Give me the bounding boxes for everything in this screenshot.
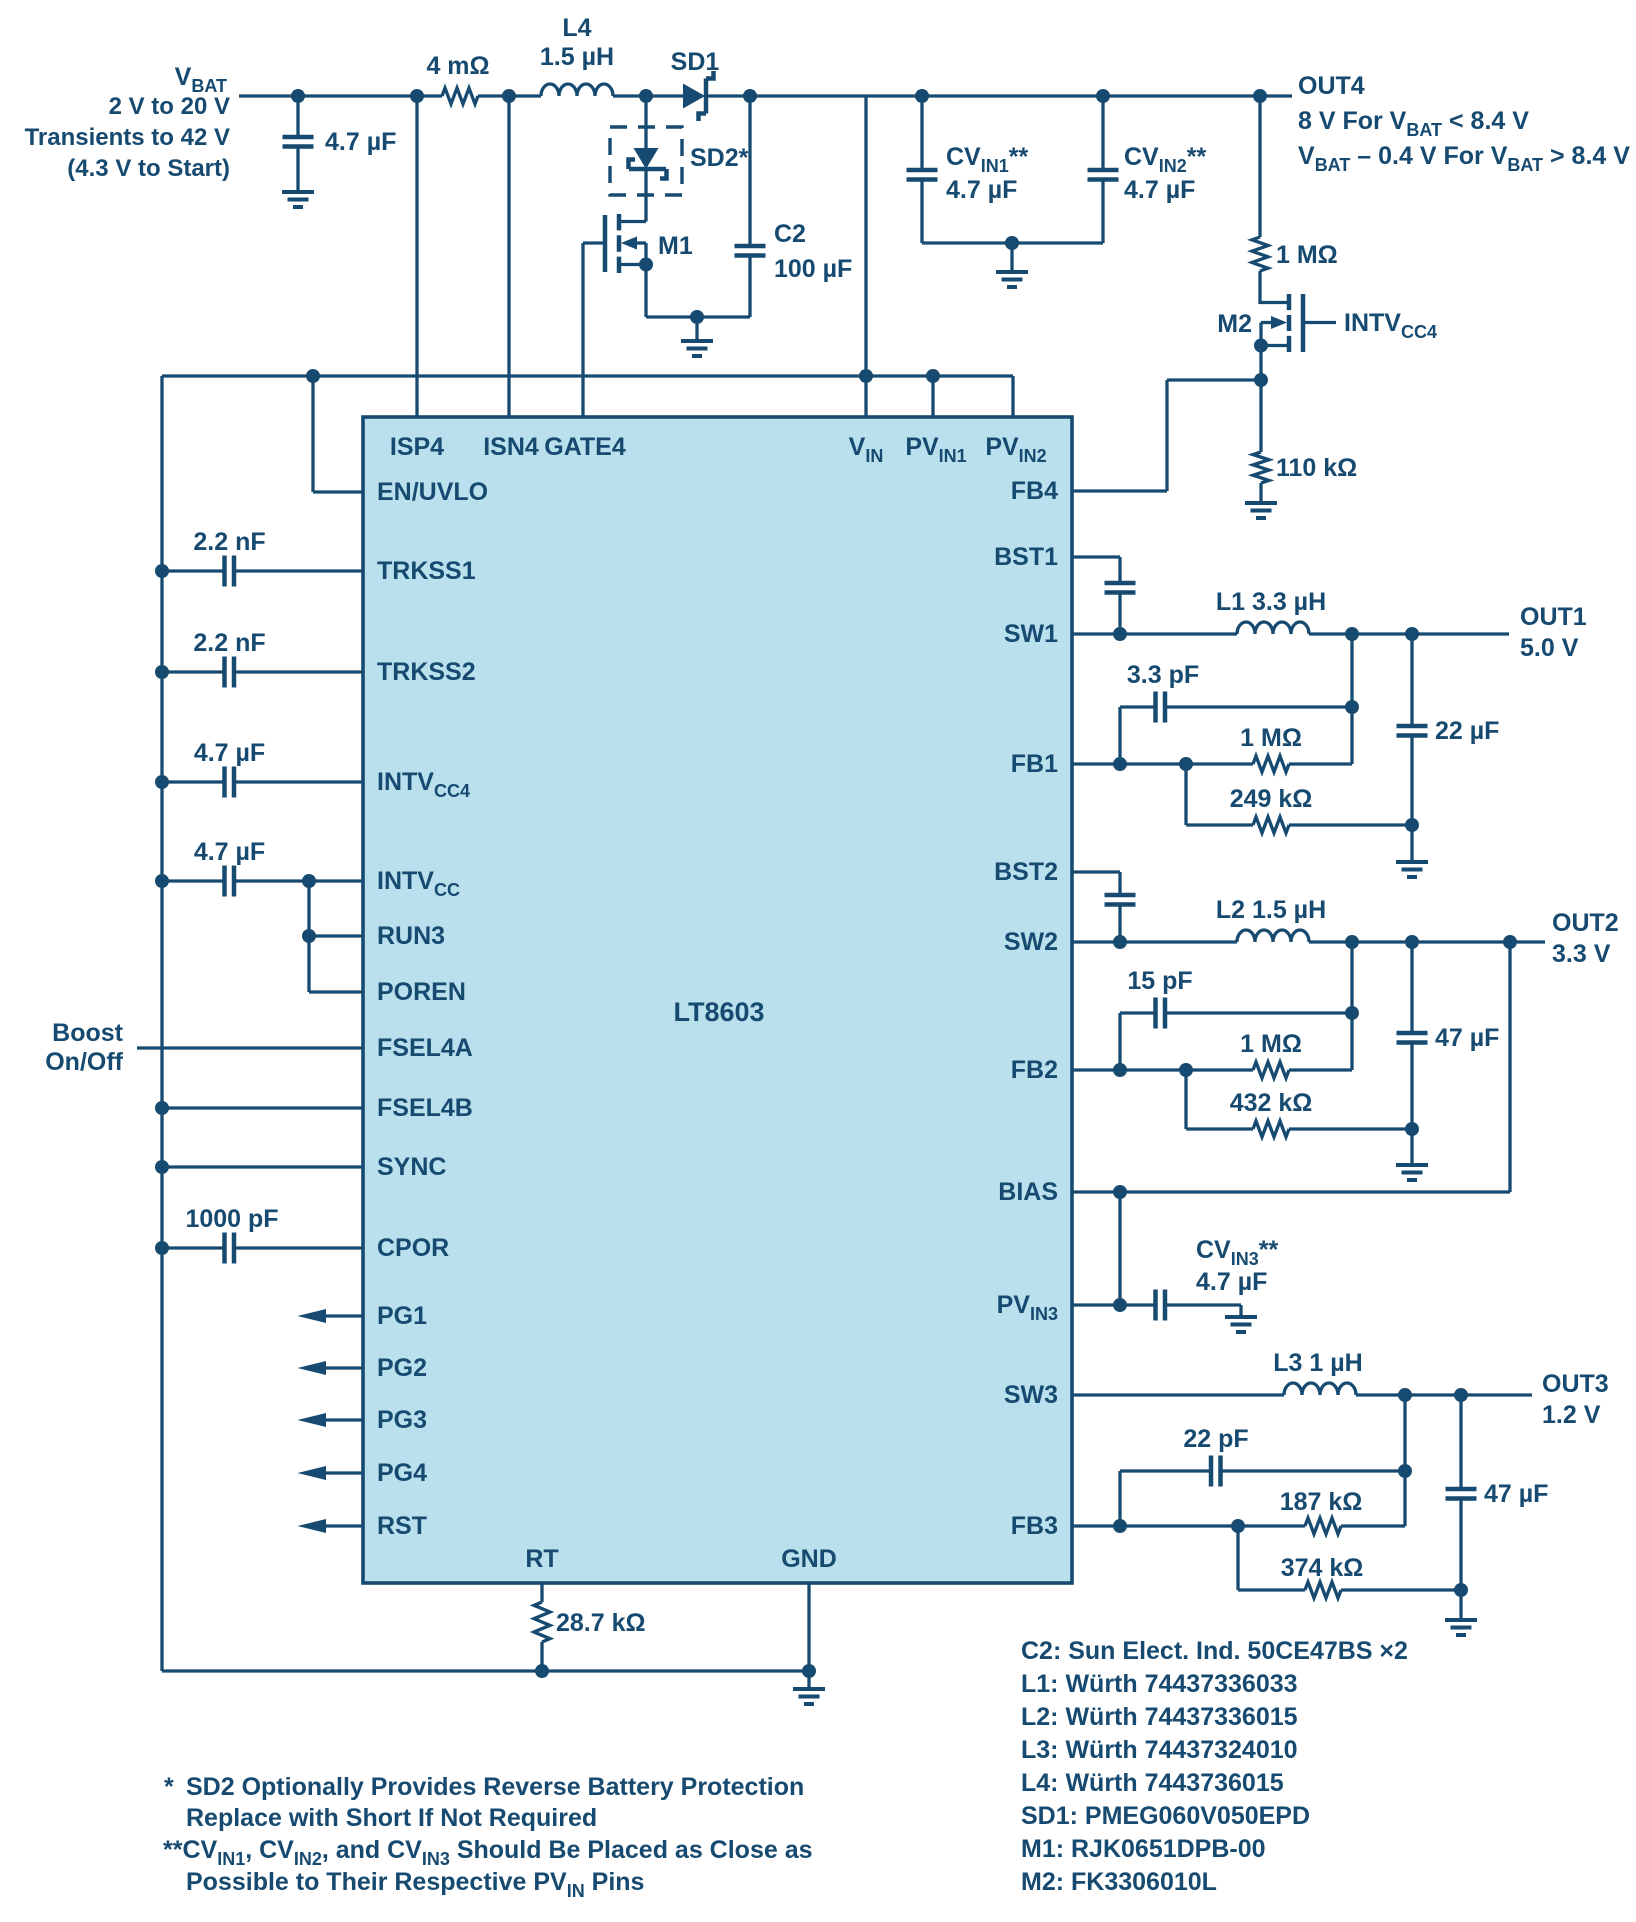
wire OUT1 feedback vertical [1350,634,1353,764]
junction dot FB3 divider [1231,1519,1245,1533]
wire OUT4 rail from SD1 cathode [706,94,1292,97]
svg-text:100 µF: 100 µF [774,255,852,283]
wire 374k left [1238,1588,1305,1591]
svg-text:SD1: SD1 [671,48,720,76]
junction dot PVIN3 [1113,1298,1127,1312]
capacitor CVIN1 4.7uF [907,96,938,243]
wire OUT3 ground stem [1459,1590,1462,1620]
capacitor 15pF feedforward [1120,998,1352,1071]
junction dot CPOR rail [155,1241,169,1255]
wire 187k right [1341,1524,1405,1527]
svg-text:TRKSS2: TRKSS2 [377,658,476,686]
junction dot INTVCC branch [302,874,316,888]
node OUT4 label [1298,72,1630,175]
svg-text:L4: Würth 7443736015: L4: Würth 7443736015 [1021,1769,1284,1797]
junction dot OUT4 divider tap [1253,89,1267,103]
junction dot BST1 SW1 [1113,627,1127,641]
junction dot TRKSS2 cap 2.2nF rail [155,665,169,679]
svg-text:PG3: PG3 [377,1406,427,1434]
junction dot TRKSS1 cap 2.2nF rail [155,564,169,578]
ground below OUT2 cap [1396,1165,1428,1180]
capacitor BST2 bootstrap [1105,872,1136,942]
junction dot OUT1 cap tap [1405,627,1419,641]
capacitor TRKSS2 cap 2.2nF [162,657,363,688]
svg-text:FB1: FB1 [1011,750,1058,778]
wire 249k right [1289,823,1412,826]
wire BIAS [1072,1190,1510,1193]
svg-text:OUT1: OUT1 [1520,603,1587,631]
wire bottom rail [162,1669,809,1672]
wire FSEL4B [162,1106,363,1109]
wire PG2 output arrow [298,1361,364,1375]
svg-text:PG2: PG2 [377,1354,427,1382]
resistor 28.7 kohm [534,1602,550,1642]
junction dot input cap [291,89,305,103]
svg-text:M1: M1 [658,232,693,260]
wire VIN drop [864,96,867,417]
wire R1M FB2 right [1289,1068,1352,1071]
capacitor input 4.7uF [283,96,314,192]
svg-text:OUT3: OUT3 [1542,1370,1609,1398]
inductor L4 [541,84,613,96]
svg-text:249 kΩ: 249 kΩ [1230,785,1313,813]
svg-text:L1 3.3 µH: L1 3.3 µH [1216,588,1326,616]
svg-text:L3: Würth 74437324010: L3: Würth 74437324010 [1021,1736,1298,1764]
svg-text:28.7 kΩ: 28.7 kΩ [556,1609,646,1637]
svg-text:POREN: POREN [377,978,466,1006]
svg-text:4.7 µF: 4.7 µF [194,838,265,866]
wire R1M FB1 right [1289,762,1352,765]
wire FB4 vertical [1165,380,1168,491]
wire M2 source down [1259,346,1262,453]
resistor 1 Mohm FB2 [1253,1062,1289,1078]
capacitor 3.3pF feedforward [1120,692,1352,765]
wire CVIN ground stem [1010,243,1013,272]
wire OUT2 feedback vertical [1350,942,1353,1070]
svg-text:187 kΩ: 187 kΩ [1280,1488,1363,1516]
wire ground stem M1 [695,317,698,341]
svg-text:L4: L4 [562,14,591,42]
node Boost On/Off label [45,1019,123,1076]
wire OUT4 down to R 1M [1258,96,1261,237]
svg-text:FB2: FB2 [1011,1056,1058,1084]
svg-text:Replace with Short If Not Requ: Replace with Short If Not Required [186,1804,597,1832]
capacitor TRKSS1 cap 2.2nF [162,556,363,587]
wire 432k drop [1184,1070,1187,1129]
svg-text:EN/UVLO: EN/UVLO [377,478,488,506]
ground below CVIN caps [996,272,1028,287]
junction dot 22pF right [1398,1464,1412,1478]
wire FB1 segment [1072,762,1253,765]
svg-text:BST1: BST1 [994,543,1058,571]
svg-text:SW3: SW3 [1004,1381,1058,1409]
svg-text:47 µF: 47 µF [1435,1024,1499,1052]
wire EN/UVLO vertical [311,376,314,492]
svg-text:M1: RJK0651DPB-00: M1: RJK0651DPB-00 [1021,1835,1266,1863]
node OUT1 label [1520,603,1587,662]
wire BST2 [1072,870,1120,873]
junction dot FB2 cap [1113,1063,1127,1077]
diode SD2 schottky [629,148,667,179]
junction dot FB4 tap [1254,373,1268,387]
wire 432k right [1289,1127,1412,1130]
wire EN/UVLO to pin [313,490,363,493]
capacitor C2 100uF [735,96,766,317]
wire SW2 segment [1072,940,1237,943]
wire SW2 to OUT2 [1309,940,1545,943]
junction dot CVIN ground node [1005,236,1019,250]
svg-text:1.2 V: 1.2 V [1542,1401,1601,1429]
svg-text:GATE4: GATE4 [544,433,626,461]
junction dot GND [802,1664,816,1678]
ground below M1 C2 [681,341,713,356]
wire ISN4 drop [507,96,510,417]
wire PG3 output arrow [298,1413,364,1427]
junction dot M1 source [639,258,653,272]
svg-text:1 MΩ: 1 MΩ [1240,1030,1302,1058]
BOM parts list [1021,1637,1408,1896]
resistor 432 kohm [1253,1121,1289,1137]
junction dot CVIN1 top [915,89,929,103]
wire CVIN common bottom [922,241,1103,244]
svg-text:*: * [164,1773,174,1801]
wire GND drop [807,1583,810,1671]
capacitor 22pF feedforward [1120,1456,1405,1527]
wire 249k drop [1184,764,1187,825]
svg-text:3.3 pF: 3.3 pF [1127,661,1199,689]
capacitor BST1 bootstrap [1105,557,1136,634]
wire ISP4 drop [415,96,418,417]
wire VBAT rail segment 2 [478,94,541,97]
wire SD2 anode [644,96,647,148]
junction dot RT bottom [535,1664,549,1678]
inductor L1 3.3uH [1237,622,1309,634]
junction dot FSEL4B [155,1101,169,1115]
wire PG1 output arrow [298,1309,364,1323]
resistor 1 Mohm FB1 [1253,756,1289,772]
svg-text:22 pF: 22 pF [1183,1425,1248,1453]
junction dot BST2 SW2 [1113,935,1127,949]
junction dot L3 out [1398,1388,1412,1402]
capacitor 47uF OUT2 [1397,942,1428,1129]
wire INTVCC to RUN3/POREN [307,881,310,992]
svg-text:SW2: SW2 [1004,928,1058,956]
junction dot PVIN1 cross [926,369,940,383]
wire SW1 segment [1072,632,1237,635]
svg-text:BST2: BST2 [994,858,1058,886]
wire SD2 cathode to M1 drain [644,169,647,222]
wire EN rail horizontal [162,374,1013,377]
junction dot OUT2 BIAS tap [1503,935,1517,949]
junction dot 249k out [1405,818,1419,832]
svg-text:(4.3 V to Start): (4.3 V to Start) [67,155,230,182]
resistor 110 kohm [1253,452,1269,483]
svg-text:On/Off: On/Off [45,1048,123,1076]
svg-text:1 MΩ: 1 MΩ [1276,241,1338,269]
wire GND stem [807,1671,810,1689]
ground below OUT1 cap [1396,862,1428,877]
wire PVIN3 segment [1072,1303,1156,1306]
svg-text:5.0 V: 5.0 V [1520,634,1579,662]
ground below GND pin [793,1689,825,1704]
svg-text:RUN3: RUN3 [377,922,445,950]
junction dot INTVCC cap 4.7uF rail [155,874,169,888]
svg-text:C2: C2 [774,220,806,248]
svg-text:47 µF: 47 µF [1484,1480,1548,1508]
svg-text:TRKSS1: TRKSS1 [377,557,476,585]
ground below CVIN3 [1225,1317,1257,1332]
svg-text:1 MΩ: 1 MΩ [1240,724,1302,752]
svg-text:Boost: Boost [52,1019,124,1047]
inductor L2 1.5uH [1237,930,1309,942]
svg-text:2 V to 20 V: 2 V to 20 V [109,93,230,120]
wire OUT1 ground stem [1410,825,1413,862]
wire OUT3 feedback vertical [1403,1395,1406,1526]
junction dot L1 out [1345,627,1359,641]
svg-text:OUT4: OUT4 [1298,72,1365,100]
resistor 249 kohm [1253,817,1289,833]
svg-text:M2: M2 [1217,310,1252,338]
svg-text:432 kΩ: 432 kΩ [1230,1089,1313,1117]
svg-text:OUT2: OUT2 [1552,909,1619,937]
junction dot 432k out [1405,1122,1419,1136]
junction dot SD2 branch [639,89,653,103]
wire RUN3 [309,934,363,937]
wire 432k left [1186,1127,1253,1130]
junction dot FB2 divider [1179,1063,1193,1077]
wire POREN [309,990,363,993]
wire SW1 to OUT1 [1309,632,1509,635]
junction dot 3.3pF right [1345,700,1359,714]
wire 249k left [1186,823,1253,826]
wire VBAT rail segment 1 [239,94,442,97]
wire BIAS to PVIN3 [1118,1192,1121,1305]
svg-text:4.7 µF: 4.7 µF [194,739,265,767]
junction dot FB1 cap [1113,757,1127,771]
note SD2 reverse battery [164,1773,804,1832]
wire 374k right [1341,1588,1461,1591]
ground below input cap [282,192,314,207]
junction dot SYNC [155,1160,169,1174]
resistor 1 Mohm OUT4 [1252,237,1268,271]
svg-text:GND: GND [781,1545,837,1573]
junction dot EN branch [306,369,320,383]
resistor 187 kohm [1305,1518,1341,1534]
svg-text:SD1: PMEG060V050EPD: SD1: PMEG060V050EPD [1021,1802,1310,1830]
wire OUT2 to BIAS vertical [1508,942,1511,1192]
capacitor CVIN3 4.7uF [1156,1290,1242,1321]
wire FB4 to pin [1072,489,1167,492]
svg-text:1000 pF: 1000 pF [185,1205,278,1233]
transistor M2 NMOS [1261,294,1336,352]
svg-text:374 kΩ: 374 kΩ [1281,1554,1364,1582]
dashed box around SD2 [610,127,682,195]
junction dot OUT2 cap tap [1405,935,1419,949]
svg-text:SYNC: SYNC [377,1153,446,1181]
svg-text:4.7 µF: 4.7 µF [1124,176,1195,204]
svg-text:L2 1.5 µH: L2 1.5 µH [1216,896,1326,924]
junction dot ISP4 tap [410,89,424,103]
junction dot BIAS branch [1113,1185,1127,1199]
node OUT3 label [1542,1370,1609,1429]
wire FB2 segment [1072,1068,1253,1071]
wire PVIN1 drop [931,376,934,417]
wire PG4 output arrow [298,1466,364,1480]
op-amp U1 LT8603 IC body [363,417,1072,1583]
svg-text:PG1: PG1 [377,1302,427,1330]
svg-text:22 µF: 22 µF [1435,717,1499,745]
svg-text:15 pF: 15 pF [1127,967,1192,995]
transistor M1 NMOS [583,214,646,273]
svg-text:SD2*: SD2* [690,144,749,172]
svg-text:L2: Würth 74437336015: L2: Würth 74437336015 [1021,1703,1298,1731]
svg-text:M2: FK3306010L: M2: FK3306010L [1021,1868,1217,1896]
wire 110k to ground [1259,483,1262,503]
junction dot C2 branch [743,89,757,103]
svg-text:FSEL4A: FSEL4A [377,1034,473,1062]
junction dot L2 out [1345,935,1359,949]
svg-text:L3 1 µH: L3 1 µH [1273,1349,1362,1377]
svg-text:FSEL4B: FSEL4B [377,1094,473,1122]
wire M1/C2 common [646,315,750,318]
svg-text:4.7 µF: 4.7 µF [325,128,396,156]
svg-text:SW1: SW1 [1004,620,1058,648]
ground below OUT3 cap [1445,1620,1477,1635]
inductor L3 1uH [1284,1383,1356,1395]
capacitor 47uF OUT3 [1446,1395,1477,1590]
wire FSEL4A [137,1046,363,1049]
svg-text:FB3: FB3 [1011,1512,1058,1540]
node VBAT input label [25,63,230,182]
wire SW3 segment [1072,1393,1284,1396]
svg-text:4.7 µF: 4.7 µF [946,176,1017,204]
wire 374k drop [1236,1526,1239,1590]
wire FB3 segment [1072,1524,1305,1527]
wire rail segment to SD1 anode [613,94,683,97]
note CVIN placement [163,1836,813,1901]
svg-text:FB4: FB4 [1011,477,1058,505]
junction dot M2 source [1254,339,1268,353]
svg-text:2.2 nF: 2.2 nF [193,528,265,556]
svg-text:PG4: PG4 [377,1459,427,1487]
svg-text:RT: RT [525,1545,558,1573]
capacitor 22uF OUT1 [1397,634,1428,825]
wire RST output arrow [298,1519,364,1533]
resistor 4 mohm [442,88,478,104]
diode SD1 schottky [683,71,714,121]
svg-text:4.7 µF: 4.7 µF [1196,1268,1267,1296]
capacitor CVIN2 4.7uF [1088,96,1119,243]
wire FB4 horizontal [1167,378,1261,381]
wire left rail [160,376,163,1671]
junction dot 374k out [1454,1583,1468,1597]
capacitor INTVCC cap 4.7uF [162,866,363,897]
junction dot ISN4 tap [502,89,516,103]
svg-text:L1: Würth 74437336033: L1: Würth 74437336033 [1021,1670,1298,1698]
svg-text:CPOR: CPOR [377,1234,449,1262]
junction dot M1 C2 ground node [690,310,704,324]
wire OUT2 ground stem [1410,1129,1413,1165]
svg-text:SD2 Optionally Provides Revers: SD2 Optionally Provides Reverse Battery … [186,1773,804,1801]
svg-text:LT8603: LT8603 [673,997,764,1027]
node OUT2 label [1552,909,1619,968]
capacitor CPOR 1000pF [162,1233,363,1264]
svg-text:2.2 nF: 2.2 nF [193,629,265,657]
wire BST1 [1072,555,1120,558]
svg-text:110 kΩ: 110 kΩ [1276,454,1357,482]
wire RT to bottom rail [540,1642,543,1671]
junction dot FB3 cap [1113,1519,1127,1533]
svg-text:1.5 µH: 1.5 µH [540,43,614,71]
junction dot VIN cross [859,369,873,383]
junction dot OUT3 cap tap [1454,1388,1468,1402]
svg-text:ISN4: ISN4 [483,433,539,461]
junction dot INTVCC4 cap 4.7uF rail [155,775,169,789]
junction dot RUN3 [302,929,316,943]
wire PVIN2 drop [1011,376,1014,417]
svg-text:BIAS: BIAS [998,1178,1058,1206]
wire R1M to M2 drain [1260,271,1289,303]
svg-text:RST: RST [377,1512,427,1540]
svg-text:C2: Sun Elect. Ind. 50CE47BS ×: C2: Sun Elect. Ind. 50CE47BS ×2 [1021,1637,1408,1665]
junction dot CVIN2 top [1096,89,1110,103]
wire M1 source down [644,265,647,318]
wire SW3 to OUT3 [1356,1393,1532,1396]
junction dot FB1 divider [1179,757,1193,771]
wire SYNC [162,1165,363,1168]
svg-text:3.3 V: 3.3 V [1552,940,1611,968]
junction dot 15pF right [1345,1006,1359,1020]
resistor 374 kohm [1305,1582,1341,1598]
svg-text:4 mΩ: 4 mΩ [426,52,489,80]
wire RT drop [540,1583,543,1602]
capacitor INTVCC4 cap 4.7uF [162,767,363,798]
svg-text:ISP4: ISP4 [390,433,444,461]
svg-text:Transients to 42 V: Transients to 42 V [25,124,230,151]
wire GATE4 from M1 gate [581,243,584,417]
ground below 110k [1245,503,1277,518]
